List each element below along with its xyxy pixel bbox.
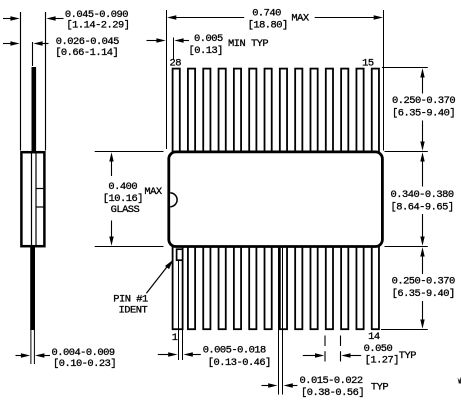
svg-text:MAX: MAX: [291, 13, 309, 25]
extension line body bottom right: [385, 246, 428, 248]
side view: left extension line: [20, 12, 22, 151]
extension line pin bottoms right: [381, 329, 428, 331]
svg-text:0.005: 0.005: [194, 33, 223, 45]
svg-text:GLASS: GLASS: [111, 204, 140, 216]
dimension 0.740 [18.80] MAX: [167, 8, 383, 32]
svg-text:0.050: 0.050: [364, 343, 393, 355]
side view: lead tip extension lines: [30, 330, 32, 364]
svg-text:[6.35-9.40]: [6.35-9.40]: [392, 288, 455, 300]
side view: lead through body: [31, 153, 33, 246]
svg-text:1: 1: [172, 332, 178, 344]
pin 8 lead lines (0.015-0.022): [278, 247, 280, 395]
svg-text:TYP: TYP: [399, 350, 416, 362]
dimension 0.045-0.090 [1.14-2.29]: [3, 9, 129, 32]
dimension 0.026-0.045 [0.66-1.14]: [3, 36, 119, 66]
svg-text:0.340-0.380: 0.340-0.380: [391, 189, 454, 201]
dimension 0.250-0.370 [6.35-9.40] (bottom): [392, 247, 455, 329]
side view: right extension line: [45, 12, 47, 151]
extension line body top right: [385, 151, 428, 153]
svg-text:[18.80]: [18.80]: [248, 20, 288, 32]
extension line body top left: [95, 151, 164, 153]
svg-text:[0.13]: [0.13]: [189, 45, 223, 57]
page-edge artifact mark: [458, 377, 461, 384]
svg-text:[0.66-1.14]: [0.66-1.14]: [55, 47, 118, 59]
side view: upper lead: [32, 67, 37, 152]
extension line body bottom left: [95, 246, 164, 248]
top view: package body: [169, 152, 383, 247]
side view: package body: [21, 152, 44, 246]
dimension 0.004-0.009 [0.10-0.23]: [16, 347, 117, 370]
extension line pin tops right: [382, 67, 428, 69]
svg-text:0.005-0.018: 0.005-0.018: [203, 345, 266, 357]
side view: lower lead: [30, 247, 35, 330]
svg-text:[8.64-9.65]: [8.64-9.65]: [391, 201, 454, 213]
dimension 0.015-0.022 [0.38-0.56] TYP: [262, 375, 389, 399]
svg-text:15: 15: [362, 57, 374, 69]
top view: pins 1..14 (bottom row): [173, 246, 379, 329]
svg-text:28: 28: [170, 57, 182, 69]
dimension 0.250-0.370 [6.35-9.40] (top): [392, 68, 455, 151]
svg-text:[0.38-0.56]: [0.38-0.56]: [301, 387, 364, 399]
pin #1 ident label and leader arrow: [113, 260, 173, 317]
svg-text:0.250-0.370: 0.250-0.370: [392, 95, 455, 107]
dimension 0.340-0.380 [8.64-9.65]: [391, 152, 454, 246]
pin 1 lead extension lines (0.005-0.018): [178, 261, 180, 361]
dimension 0.400 [10.16] GLASS MAX: [103, 152, 163, 246]
svg-text:MIN TYP: MIN TYP: [228, 38, 268, 50]
dimension 0.005 [0.13] MIN TYP: [147, 33, 269, 60]
top view: glass seal semicircle: [170, 193, 177, 207]
svg-text:[6.35-9.40]: [6.35-9.40]: [392, 107, 455, 119]
svg-text:0.250-0.370: 0.250-0.370: [392, 276, 455, 288]
pin #1 ident square: [177, 249, 183, 260]
svg-text:0.400: 0.400: [108, 181, 137, 193]
svg-text:TYP: TYP: [371, 382, 388, 394]
dimension 0.005-0.018 [0.13-0.46]: [158, 345, 271, 369]
top view: pins 28..15 (top row): [173, 69, 379, 153]
svg-text:[1.14-2.29]: [1.14-2.29]: [66, 20, 129, 32]
svg-text:14: 14: [368, 331, 380, 343]
svg-text:MAX: MAX: [144, 186, 162, 198]
svg-text:[0.10-0.23]: [0.10-0.23]: [53, 358, 116, 370]
dimension 0.050 [1.27] TYP with dashed centerlines: [303, 336, 416, 367]
svg-text:[1.27]: [1.27]: [365, 355, 399, 367]
svg-text:[0.13-0.46]: [0.13-0.46]: [208, 357, 271, 369]
extension line left of 0.740: [166, 10, 168, 149]
svg-text:0.740: 0.740: [252, 8, 281, 20]
side view: glass seal box: [36, 188, 44, 190]
extension line right of 0.740: [383, 10, 385, 151]
svg-text:IDENT: IDENT: [119, 304, 148, 316]
svg-text:0.015-0.022: 0.015-0.022: [300, 375, 363, 387]
